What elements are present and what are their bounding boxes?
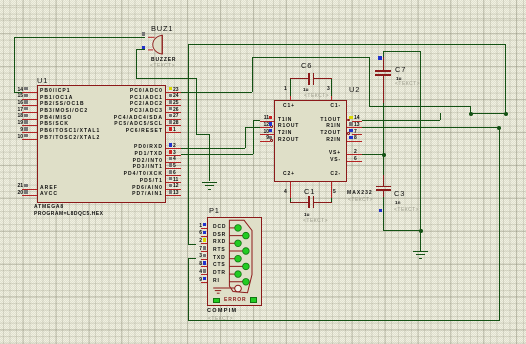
wire vertical x=470 — [470, 106, 471, 113]
pin square — [169, 120, 173, 124]
U2 pin 12 R1OUT — [270, 125, 273, 128]
wire vertical x=440 — [440, 113, 441, 120]
ground (buzzer net) — [202, 182, 217, 183]
connector P1 COMPIM box — [207, 217, 262, 307]
label U2 — [349, 86, 360, 95]
pin square — [349, 116, 353, 120]
wire buzzer-top to PB0 horizontal — [14, 37, 145, 38]
pin square — [169, 150, 173, 154]
pin square — [169, 163, 173, 167]
wire horizontal y=57 — [252, 57, 369, 58]
pin square — [203, 231, 207, 235]
wire horizontal y=44 top — [188, 44, 506, 45]
C3 pin square — [379, 209, 383, 213]
U1 pin 21 AREF — [22, 189, 37, 190]
U2 bottom pin 4 — [290, 182, 291, 198]
wire vertical x=499 long — [499, 127, 500, 320]
wire RXD row — [181, 148, 245, 149]
buzzer BUZ1 — [146, 30, 176, 60]
wire vertical x=196 — [196, 78, 197, 134]
junction at 420,230 — [419, 229, 423, 233]
label COMPIM — [207, 308, 237, 315]
U1 pin 13 PD7/AIN1 — [166, 195, 181, 196]
P1 pin 3 TXD — [201, 259, 207, 260]
mcu U1 box — [37, 85, 166, 203]
label C7 value — [396, 76, 401, 82]
wire T1OUT right — [362, 120, 440, 121]
label buzzer TEXT — [150, 63, 175, 69]
wire into T1IN stub — [253, 120, 260, 121]
label BUZ1 — [151, 25, 173, 34]
pin square — [24, 184, 28, 188]
C7 pin square — [378, 56, 382, 60]
U1 pin 28 PC5/ADC5/SCL — [166, 125, 181, 126]
wire C3 bottom lead down — [383, 196, 384, 230]
U2 pin 10 T2IN — [260, 134, 275, 135]
wire C1 left elbow — [290, 198, 291, 202]
P1 pin 4 DTR — [201, 274, 207, 275]
wire into pin14 stub — [14, 92, 23, 93]
wire into R1OUT stub — [245, 127, 260, 128]
wire horizontal y=134 — [196, 134, 209, 135]
U2 pin 4 number — [284, 189, 287, 195]
P1 pin 9 RI — [201, 282, 207, 283]
wire C7-top y=51 — [383, 51, 420, 52]
U2 label C1+ — [283, 103, 295, 109]
P1 pin 6 DSR — [201, 236, 207, 237]
wire C1 right elbow — [331, 198, 332, 202]
pin square — [169, 170, 173, 174]
wire vertical x=136 — [136, 49, 137, 78]
pin square — [203, 238, 207, 242]
P1 pin 7 RTS — [201, 251, 207, 252]
pin square — [269, 136, 273, 140]
pin square — [269, 122, 273, 126]
label C6 TEXT — [304, 93, 329, 99]
pin square — [24, 100, 28, 104]
pin square — [269, 129, 273, 133]
capacitor C6 — [290, 78, 309, 79]
wire horizontal y=106 — [369, 106, 470, 107]
U2 pin 2 VS+ — [347, 154, 362, 155]
label COMPIM TEXT — [208, 316, 233, 322]
wire horizontal y=78 — [136, 78, 196, 79]
wire vertical x=188 long — [188, 44, 189, 244]
label ATMEGA8 — [34, 204, 64, 210]
pin square — [169, 127, 173, 131]
P1 pin 8 CTS — [201, 266, 207, 267]
U2 pin 1 number — [284, 86, 287, 92]
label C1 TEXT — [303, 218, 328, 224]
U2 pin 11 T1IN — [260, 121, 275, 122]
pin square — [269, 116, 273, 120]
U2 pin 9 R2OUT — [270, 139, 273, 142]
capacitor C3 — [383, 175, 384, 186]
wire vertical x=505 — [505, 44, 506, 113]
wire C6 right elbow — [331, 79, 332, 96]
pin square — [169, 157, 173, 161]
label C6 value — [303, 87, 308, 93]
U2 pin 8 R2IN — [347, 141, 362, 142]
junction at 383,154 — [382, 153, 386, 157]
capacitor C7 — [383, 57, 384, 71]
wire C7 top neck — [383, 51, 384, 58]
wire buzzer-bottom — [136, 49, 145, 50]
pin square — [169, 94, 173, 98]
label C1 — [304, 188, 315, 197]
U1 pin 12 PD6/AIN0 — [166, 189, 181, 190]
wire C3 to ground net y=230 — [383, 230, 420, 231]
U2 label C2- — [271, 171, 341, 177]
label ERROR — [224, 297, 247, 303]
U2 pin 7 T2OUT — [347, 132, 350, 135]
pin square — [349, 129, 353, 133]
U1 pin 4 PD2/INT0 — [166, 162, 181, 163]
U2 label C1- — [271, 103, 341, 109]
label PROGRAM — [34, 211, 103, 217]
U1 pin 19 PB5/SCK — [22, 125, 37, 126]
wire horizontal y=113 — [470, 113, 506, 114]
label C6 — [301, 62, 312, 71]
U2 pin 14 T1OUT — [347, 119, 350, 122]
U2 pin 13 R1IN — [347, 127, 362, 128]
pin square — [349, 122, 353, 126]
pin square — [24, 127, 28, 131]
capacitor C1 — [290, 202, 309, 203]
wire vertical x=245 to R1OUT — [245, 127, 246, 148]
label C1 value — [304, 212, 309, 218]
buzzer pin1 square — [142, 32, 146, 36]
U1 pin 6 PD4/T0/XCK — [166, 175, 181, 176]
wire vertical x=253 to T1IN — [253, 120, 254, 154]
pin square — [203, 269, 207, 273]
U2 label C2+ — [283, 171, 295, 177]
wire PC0 right — [181, 92, 252, 93]
wire TXD row — [181, 154, 253, 155]
buzzer pin2 square — [142, 46, 146, 50]
pin square — [169, 177, 173, 181]
pin square — [169, 184, 173, 188]
U1 pin 9 PB6/TOSC1/XTAL1 — [22, 132, 37, 133]
pin square — [169, 107, 173, 111]
pin square — [203, 261, 207, 265]
U2 top pin 3 — [331, 96, 332, 100]
P1 pin 2 RXD — [201, 243, 207, 244]
pin square — [203, 254, 207, 258]
wire vertical x=420 to ground — [420, 51, 421, 251]
wire to P1 TXD — [188, 258, 196, 259]
U1 pin 26 PC3/ADC3 — [166, 112, 181, 113]
U1 pin 5 PD3/INT1 — [166, 168, 181, 169]
P1 DB9 connector graphic — [210, 219, 260, 299]
U1 pin 16 PB2/SS/OC1B — [22, 105, 37, 106]
wire to P1 RXD — [188, 244, 196, 245]
pin square — [24, 134, 28, 138]
pin square — [24, 120, 28, 124]
U1 pin 25 PC2/ADC2 — [166, 105, 181, 106]
pin square — [169, 114, 173, 118]
wire R1IN right — [362, 127, 499, 128]
wire vertical x=383 C7-C3 link — [383, 103, 384, 175]
pin square — [24, 87, 28, 91]
U1 pin 10 PB7/TOSC2/XTAL2 — [22, 139, 37, 140]
wire vertical x=369 — [369, 57, 370, 106]
wire VS+ right — [362, 154, 383, 155]
U2 pin 6 VS- — [347, 161, 362, 162]
pin square — [24, 107, 28, 111]
ic U2 MAX232 box — [274, 100, 347, 182]
U1 pin 17 PB3/MOSI/OC2 — [22, 112, 37, 113]
label MAX232 — [347, 190, 373, 196]
wire to ground 1 — [209, 134, 210, 181]
pin square — [169, 100, 173, 104]
pin square — [349, 136, 353, 140]
label P1 — [209, 207, 220, 216]
U2 pin 3 number — [327, 86, 330, 92]
label MAX232 TEXT — [348, 197, 373, 203]
P1 ERROR indicator — [213, 298, 220, 304]
U1 pin 1 PC6/RESET — [166, 132, 181, 133]
wire vertical x=188 to TXD — [188, 258, 189, 320]
label C3 — [394, 190, 405, 199]
junction at 498,127 — [497, 126, 501, 130]
U1 pin 18 PB4/MISO — [22, 119, 37, 120]
pin square — [169, 143, 173, 147]
U1 pin 24 PC1/ADC1 — [166, 99, 181, 100]
wire vertical x=252 — [252, 57, 253, 92]
label C3 TEXT — [394, 207, 419, 213]
pin square — [203, 277, 207, 281]
wire vertical x=14 — [14, 37, 15, 92]
U1 pin 20 AVCC — [22, 195, 37, 196]
wire C6 left elbow — [290, 79, 291, 96]
U2 pin 5 number — [333, 189, 336, 195]
label C3 value — [395, 200, 400, 206]
pin square — [24, 190, 28, 194]
label C7 TEXT — [395, 81, 420, 87]
pin square — [203, 223, 207, 227]
junction at 505,113 — [504, 112, 508, 116]
label BUZZER — [151, 57, 176, 63]
pin square — [169, 87, 173, 91]
pin square — [24, 94, 28, 98]
pin square — [24, 114, 28, 118]
label U1 — [37, 77, 48, 86]
junction at 470,113 — [469, 112, 473, 116]
wire bottom long y=320 — [188, 320, 500, 321]
pin square — [203, 246, 207, 250]
P1 pin 1 DCD — [201, 228, 207, 229]
U2 top pin 1 — [290, 96, 291, 100]
U1 pin 23 PC0/ADC0 — [166, 92, 181, 93]
ground (C3 net) — [413, 251, 428, 252]
U2 bottom pin 5 — [331, 182, 332, 198]
U1 pin 2 PD0/RXD — [166, 148, 181, 149]
U1 pin 3 PD1/TXD — [166, 155, 181, 156]
U1 pin 14 PB0/ICP1 — [22, 92, 37, 93]
U1 pin 11 PD5/T1 — [166, 182, 181, 183]
U1 pin 15 PB1/OC1A — [22, 99, 37, 100]
pin square — [169, 190, 173, 194]
label C7 — [395, 66, 406, 75]
U1 pin 27 PC4/ADC4/SDA — [166, 119, 181, 120]
